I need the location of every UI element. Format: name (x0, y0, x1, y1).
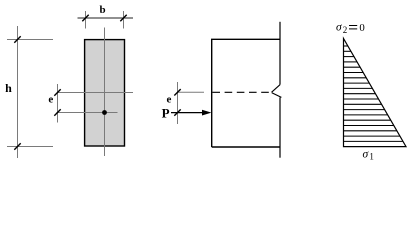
dimension h: bottom extension line (7, 146, 53, 148)
svg-text:1: 1 (369, 152, 374, 162)
svg-text:P: P (162, 106, 170, 121)
svg-text:h: h (5, 81, 12, 95)
dimension b: left extension line (85, 11, 87, 29)
stress triangle outline (344, 39, 407, 147)
cross-section rectangle (left figure) (85, 40, 125, 146)
dimension e (left): top tick (54, 89, 60, 95)
column right edge line (upper part) (279, 22, 281, 85)
dimension h: dimension line (17, 26, 19, 158)
wire: thin line at neutral axis level (178, 91, 205, 93)
load P arrowhead (202, 110, 211, 116)
dimension e (left): bottom tick (54, 109, 60, 115)
svg-text:0: 0 (359, 22, 364, 34)
dashed neutral axis line (212, 91, 271, 93)
svg-text:2: 2 (343, 25, 348, 35)
dimension b: dimension line (78, 17, 134, 19)
dimension e (middle): top tick (174, 89, 180, 95)
dimension b: left tick (82, 15, 88, 21)
break mark lower diagonal (272, 93, 282, 98)
hatch lines of stress distribution (344, 46, 404, 141)
dimension e (left figure): dimension line (57, 84, 59, 123)
column right edge line (lower part) (279, 97, 281, 157)
wire: horizontal centroid axis line (57, 92, 133, 94)
dimension h: bottom tick (14, 143, 20, 149)
break mark upper diagonal (272, 85, 281, 93)
load P arrow shaft (171, 112, 204, 114)
dimension b: right tick (120, 15, 126, 21)
dimension b: right extension line (123, 11, 125, 29)
wire: vertical centerline of cross-section (104, 28, 106, 157)
dimension e (middle figure): dimension line (177, 82, 179, 124)
dimension h: top extension line (7, 39, 53, 41)
wire: horizontal line at load point level (57, 112, 118, 114)
column outline (middle figure): left, top, bottom edges (212, 39, 280, 147)
svg-text:e: e (167, 94, 172, 106)
dimension h: top tick (14, 36, 20, 42)
dimension e (middle): bottom tick (174, 109, 180, 115)
svg-text:b: b (99, 4, 105, 16)
svg-text:e: e (48, 94, 53, 106)
node: load application point (black dot) (102, 110, 107, 115)
